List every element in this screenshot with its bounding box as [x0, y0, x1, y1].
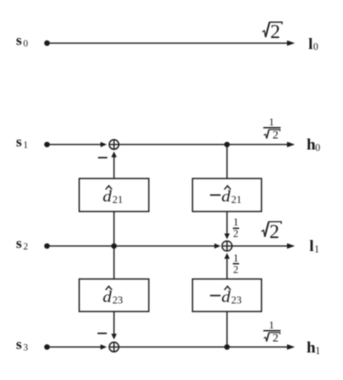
svg-text:s: s — [16, 337, 22, 353]
svg-text:2: 2 — [23, 242, 28, 252]
svg-text:21: 21 — [112, 195, 123, 206]
svg-text:1: 1 — [233, 253, 239, 265]
svg-text:0: 0 — [315, 143, 320, 154]
svg-text:1: 1 — [269, 116, 275, 128]
svg-text:2: 2 — [270, 21, 280, 43]
svg-text:3: 3 — [23, 343, 28, 353]
svg-text:1: 1 — [314, 244, 319, 255]
svg-text:2: 2 — [233, 229, 238, 240]
svg-text:0: 0 — [23, 40, 28, 50]
svg-text:h: h — [307, 339, 316, 356]
svg-text:23: 23 — [112, 295, 123, 306]
svg-text:21: 21 — [231, 195, 242, 206]
svg-text:2: 2 — [273, 128, 279, 142]
svg-text:s: s — [16, 236, 22, 252]
svg-text:s: s — [16, 33, 22, 49]
svg-text:d: d — [221, 189, 231, 206]
svg-text:d: d — [103, 189, 113, 206]
svg-text:1: 1 — [23, 141, 28, 151]
svg-text:s: s — [16, 135, 22, 151]
svg-text:h: h — [307, 136, 316, 153]
svg-text:2: 2 — [233, 265, 238, 276]
svg-text:0: 0 — [313, 42, 318, 53]
svg-text:23: 23 — [231, 295, 242, 306]
svg-text:1: 1 — [315, 346, 320, 357]
svg-text:1: 1 — [233, 217, 239, 229]
svg-text:d: d — [103, 289, 113, 306]
svg-text:d: d — [221, 289, 231, 306]
